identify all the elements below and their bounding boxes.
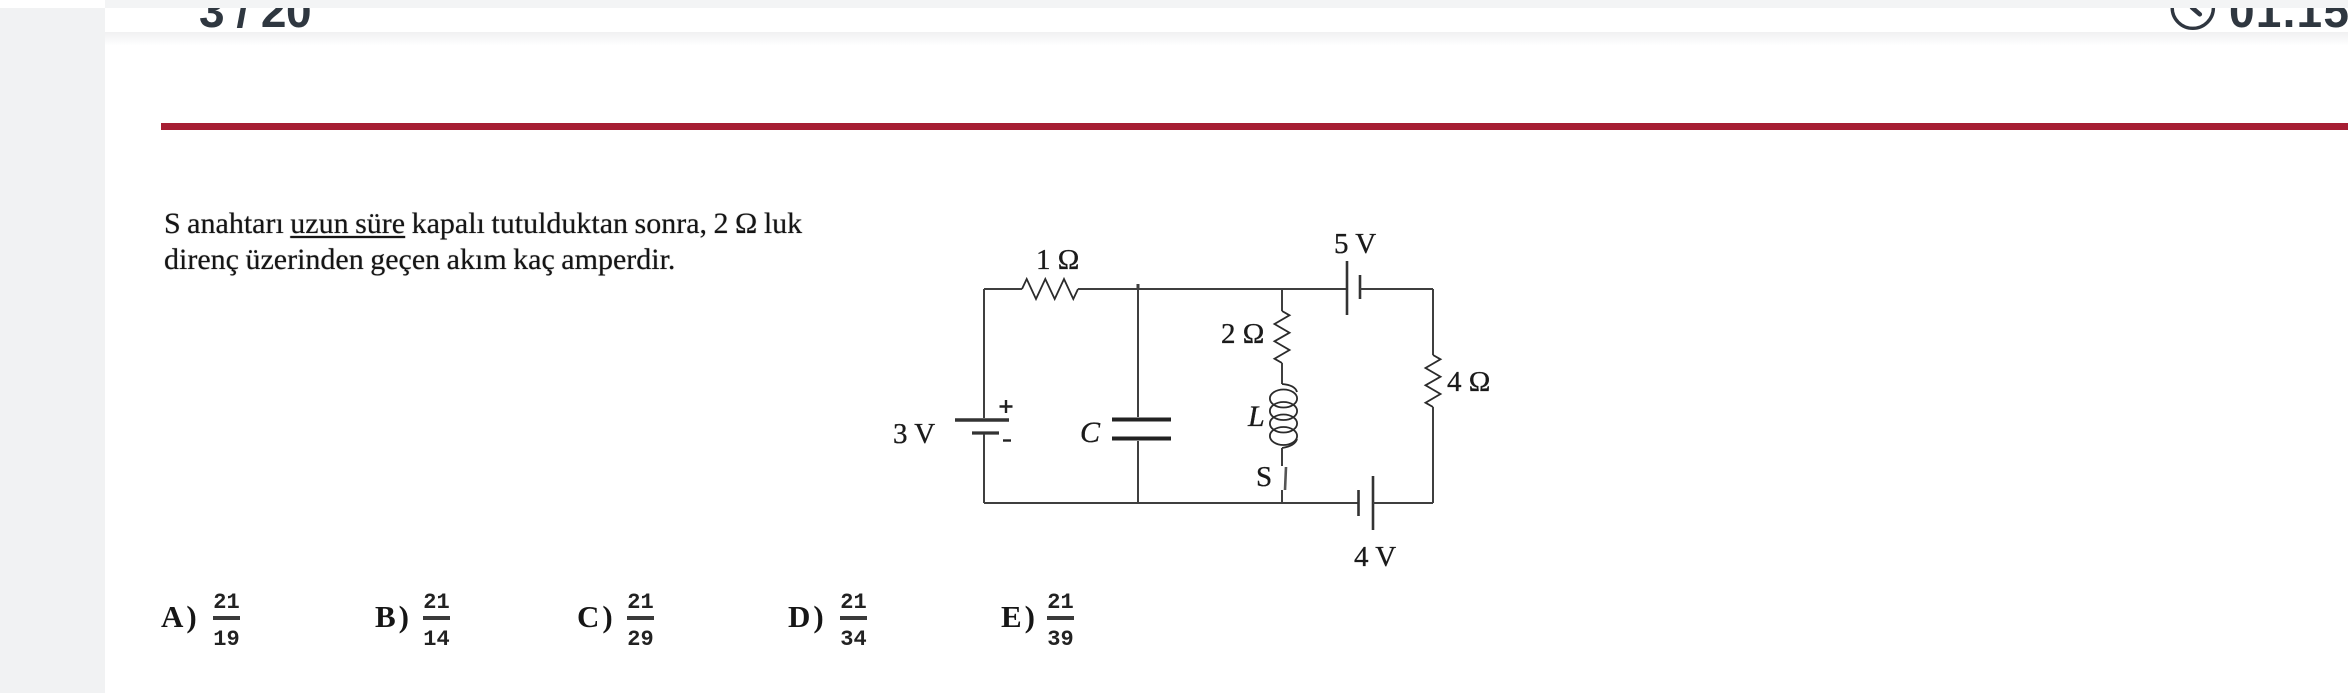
wire top-right segment <box>1360 288 1433 290</box>
battery U-5V long plate <box>1346 261 1349 315</box>
header: question counter 3 / 20 (clipped at top) <box>199 0 311 34</box>
option C <box>577 601 616 632</box>
battery U-3V long plate <box>955 418 1009 422</box>
wire top middle segment <box>1078 288 1347 290</box>
option A <box>161 601 200 632</box>
svg-text:S: S <box>1256 461 1272 493</box>
switch S lever <box>1285 467 1286 490</box>
battery U-3V short plate <box>972 431 999 434</box>
resistor R2 2 ohm <box>1275 311 1290 363</box>
wire right side upper <box>1432 289 1434 355</box>
node above C branch <box>1137 284 1140 289</box>
wire bottom right segment <box>1373 502 1433 504</box>
option D <box>788 601 827 632</box>
inductor L coil <box>1270 384 1297 448</box>
red divider rule <box>161 123 2348 130</box>
circuit schematic <box>850 200 1550 600</box>
option B <box>375 601 412 632</box>
svg-text:5 V: 5 V <box>1334 228 1376 260</box>
capacitor C top plate <box>1112 418 1171 422</box>
option E <box>1001 601 1038 632</box>
wire left side lower <box>983 434 985 503</box>
svg-text:2 Ω: 2 Ω <box>1221 318 1264 350</box>
resistor R1 1 ohm <box>1022 279 1078 299</box>
svg-text:4 V: 4 V <box>1354 541 1396 573</box>
wire between R2 and L <box>1281 363 1283 384</box>
svg-text:C: C <box>1080 416 1101 449</box>
battery U-5V short plate <box>1359 275 1362 299</box>
wire right side lower <box>1432 407 1434 503</box>
svg-text:4 Ω: 4 Ω <box>1447 366 1490 398</box>
left sidebar panel <box>0 8 105 693</box>
wire left side upper <box>983 289 985 418</box>
timer clock icon <box>2168 0 2220 32</box>
wire between L and switch <box>1281 448 1283 466</box>
wire top-left segment <box>984 288 1022 290</box>
wire C branch upper <box>1137 289 1139 417</box>
wire bottom left segment <box>984 502 1358 504</box>
capacitor C bottom plate <box>1112 437 1171 441</box>
svg-text:3 V: 3 V <box>893 418 935 450</box>
battery U-4V long plate <box>1372 476 1375 530</box>
wire L branch top <box>1281 289 1283 311</box>
minus sign <box>1003 439 1011 441</box>
plus sign <box>1000 400 1013 413</box>
battery U-4V short plate <box>1357 490 1360 516</box>
svg-text:L: L <box>1247 400 1265 433</box>
wire C branch lower <box>1137 441 1139 503</box>
under-header drop shadow <box>105 32 2348 46</box>
resistor R4 4 ohm <box>1426 355 1441 407</box>
svg-text:1 Ω: 1 Ω <box>1036 244 1079 276</box>
timer text 01.15 (clipped at top) <box>2229 0 2348 34</box>
wire switch to bottom <box>1281 490 1283 503</box>
question text <box>164 206 802 278</box>
header top gray band <box>105 0 2348 8</box>
